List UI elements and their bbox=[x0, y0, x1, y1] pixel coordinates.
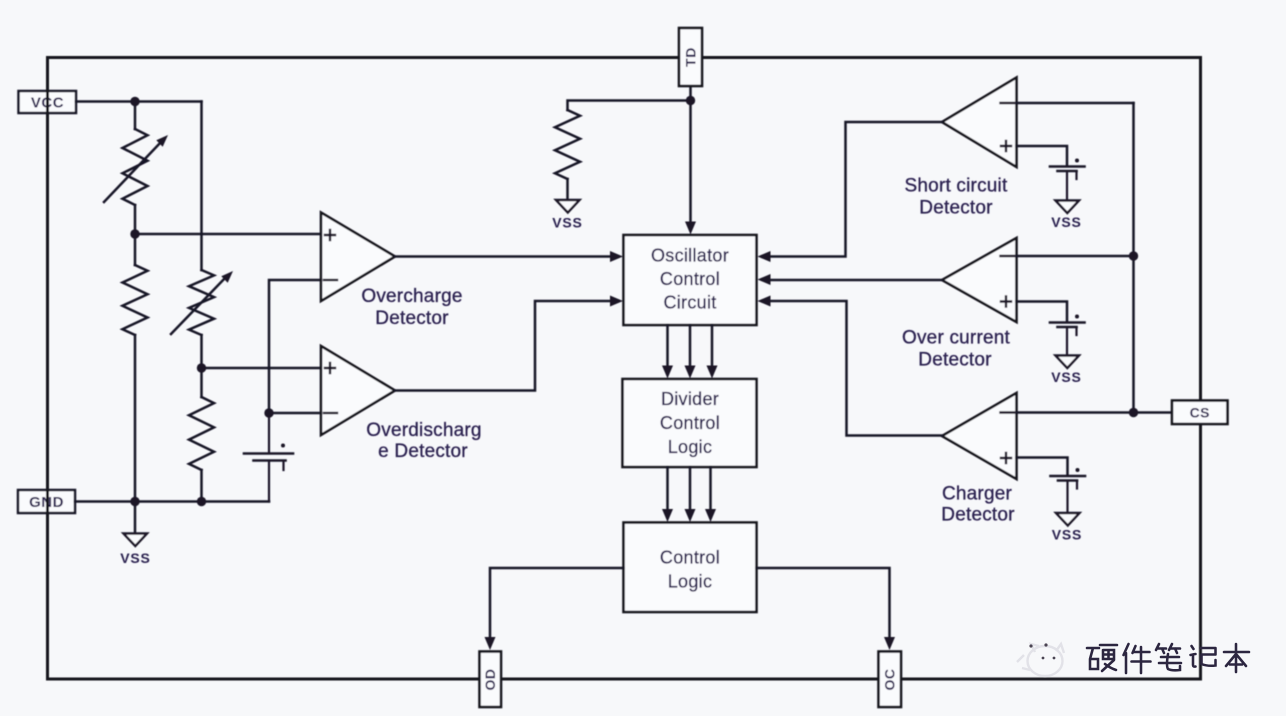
wire overcharge minus input bbox=[269, 280, 337, 413]
wire over current minus input bbox=[1017, 255, 1134, 258]
wire chain2 top bbox=[200, 102, 203, 271]
svg-text:Control: Control bbox=[660, 269, 720, 289]
svg-text:Charger: Charger bbox=[942, 484, 1013, 505]
comparator U5 Charger Detector bbox=[942, 393, 1017, 479]
label Over current Detector bbox=[902, 328, 1011, 371]
arrowhead into OC bbox=[884, 637, 895, 650]
arrowheads into divider bbox=[662, 366, 718, 379]
wire charger plus input bbox=[1017, 458, 1068, 476]
svg-text:VSS: VSS bbox=[1052, 527, 1082, 543]
battery B3 (reference, over current) bbox=[1050, 315, 1085, 356]
arrowheads into control logic bbox=[662, 509, 716, 522]
label Overcharge Detector bbox=[361, 286, 462, 329]
svg-text:Detector: Detector bbox=[375, 308, 449, 329]
wire chain2 bottom bbox=[200, 470, 203, 502]
svg-text:e Detector: e Detector bbox=[378, 441, 468, 462]
watermark logo (faint cat) bbox=[1017, 644, 1064, 676]
svg-text:VSS: VSS bbox=[1051, 369, 1081, 385]
pin VCC bbox=[19, 91, 77, 113]
svg-text:Logic: Logic bbox=[668, 437, 713, 457]
battery B1 (reference, left) bbox=[244, 413, 293, 502]
label Short circuit Detector bbox=[905, 176, 1008, 219]
wires divider to control logic (3 arrows) bbox=[668, 467, 711, 510]
wire chain1 mid bbox=[134, 205, 137, 265]
block Divider Control Logic bbox=[623, 379, 757, 467]
resistor R3 bbox=[123, 265, 148, 335]
arrowhead into oscillator top bbox=[685, 222, 696, 235]
wire R5 to VSS bbox=[566, 179, 569, 200]
comparator U4 Over current Detector bbox=[942, 238, 1017, 322]
wire short circuit output bbox=[770, 122, 942, 257]
node at overcharge plus tap bbox=[130, 229, 139, 238]
svg-text:Over current: Over current bbox=[902, 328, 1011, 349]
wire control logic to OC bbox=[757, 568, 890, 637]
pin TD bbox=[679, 28, 702, 86]
svg-text:VSS: VSS bbox=[120, 550, 150, 566]
svg-text:CS: CS bbox=[1190, 405, 1210, 421]
ground VSS (charger) bbox=[1056, 513, 1080, 526]
block Control Logic bbox=[624, 523, 757, 613]
wire short plus input bbox=[1017, 146, 1068, 166]
pin GND bbox=[18, 490, 75, 513]
arrowhead of R1 bbox=[156, 135, 168, 147]
node at overdischarge minus junction bbox=[264, 408, 273, 417]
watermark text 硬件笔记本 bbox=[1087, 644, 1249, 673]
pin OD bbox=[480, 652, 502, 708]
wire right bus bbox=[1132, 103, 1135, 413]
arrowhead into oscillator right middle bbox=[758, 274, 771, 285]
wires oscillator to divider (3 arrows) bbox=[668, 325, 713, 366]
arrowhead into OD bbox=[485, 637, 496, 650]
arrowhead into oscillator right bottom bbox=[758, 296, 771, 307]
wire chain1 bottom bbox=[134, 335, 137, 502]
svg-text:Detector: Detector bbox=[941, 505, 1015, 526]
wire overdischarge plus input bbox=[202, 367, 322, 370]
svg-text:OD: OD bbox=[482, 669, 498, 691]
wire overdischarge output bbox=[395, 301, 611, 391]
watermark logo face dots bbox=[1029, 643, 1055, 659]
wire TD to R5 bbox=[568, 101, 691, 111]
comparator U2 Overdischarge Detector bbox=[321, 346, 395, 435]
wire overcharge plus input bbox=[135, 233, 321, 236]
label Charger Detector bbox=[941, 484, 1015, 526]
pin CS bbox=[1172, 401, 1228, 425]
arrowhead into oscillator left bottom bbox=[610, 296, 623, 307]
node at VCC divider junction bbox=[130, 97, 139, 106]
resistor R4 bbox=[189, 397, 214, 470]
svg-text:Circuit: Circuit bbox=[663, 293, 716, 313]
node at overdischarge plus tap bbox=[197, 363, 206, 372]
wire chain2 mid bbox=[200, 335, 203, 397]
pin OC bbox=[879, 652, 902, 708]
battery B2 (reference, short circuit) bbox=[1050, 159, 1085, 200]
block Oscillator Control Circuit bbox=[624, 235, 757, 325]
resistor R2 (variable) bbox=[171, 270, 226, 335]
node GND row chain2 bbox=[197, 497, 206, 506]
wire VSS stub left bbox=[134, 502, 137, 534]
ground VSS (left) bbox=[124, 534, 148, 547]
resistor R1 (variable) bbox=[104, 129, 161, 205]
node right bus CS bbox=[1129, 408, 1138, 417]
pin TD wire down bbox=[689, 86, 692, 228]
wire VCC to divider chains bbox=[76, 100, 202, 103]
arrowhead into oscillator left top bbox=[610, 251, 623, 262]
svg-text:OC: OC bbox=[882, 669, 898, 691]
svg-text:VSS: VSS bbox=[1051, 214, 1081, 230]
ground VSS (short circuit) bbox=[1056, 201, 1080, 214]
arrowhead of R2 bbox=[221, 271, 233, 283]
IC boundary bbox=[48, 58, 1201, 680]
svg-text:Detector: Detector bbox=[918, 350, 992, 371]
battery B4 (reference, charger) bbox=[1051, 468, 1086, 513]
svg-text:Logic: Logic bbox=[668, 572, 713, 592]
svg-text:Overcharge: Overcharge bbox=[361, 286, 462, 307]
wire chain1 top bbox=[134, 102, 137, 130]
svg-text:Oscillator: Oscillator bbox=[651, 246, 729, 266]
wire over current output bbox=[770, 279, 942, 282]
comparator U3 Short circuit Detector bbox=[942, 78, 1017, 168]
arrowhead into oscillator right top bbox=[758, 251, 771, 262]
svg-text:Overdischarg: Overdischarg bbox=[366, 420, 481, 441]
wire over current plus input bbox=[1017, 302, 1068, 322]
svg-text:Control: Control bbox=[660, 548, 720, 568]
svg-text:VSS: VSS bbox=[552, 215, 582, 231]
wire short minus input bbox=[1017, 102, 1134, 105]
node GND row chain1 bbox=[130, 497, 139, 506]
wire charger minus input to CS bbox=[1017, 411, 1173, 414]
wire charger output bbox=[770, 301, 942, 436]
wire GND row bbox=[75, 500, 269, 503]
svg-text:Control: Control bbox=[660, 413, 720, 433]
resistor R5 bbox=[555, 110, 580, 179]
wire control logic to OD bbox=[490, 568, 624, 637]
svg-text:Detector: Detector bbox=[919, 198, 993, 219]
svg-text:Short circuit: Short circuit bbox=[905, 176, 1008, 197]
wire overdischarge minus input bbox=[269, 412, 337, 415]
node at TD junction bbox=[686, 96, 695, 105]
ground VSS (over current) bbox=[1056, 356, 1080, 369]
comparator U1 Overcharge Detector bbox=[321, 213, 395, 302]
wire overcharge output bbox=[395, 255, 611, 258]
node right bus over current bbox=[1129, 251, 1138, 260]
svg-text:TD: TD bbox=[683, 47, 699, 67]
svg-text:Divider: Divider bbox=[661, 389, 719, 409]
label Overdischarge Detector bbox=[366, 420, 481, 462]
ground VSS (under TD resistor) bbox=[556, 200, 580, 213]
